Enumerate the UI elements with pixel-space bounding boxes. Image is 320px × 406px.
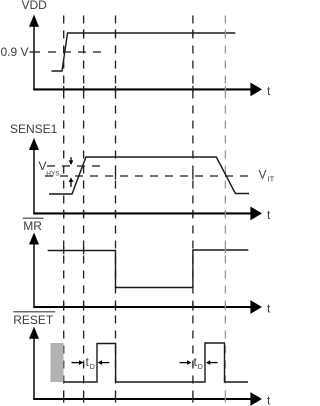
- tD delay annotation 2 arrow right: [180, 362, 188, 364]
- svg-text:t: t: [267, 394, 271, 406]
- 0.9 V dashed level line: [48, 51, 104, 53]
- VDD time axis: [33, 88, 251, 90]
- VIT dashed level line: [45, 175, 252, 177]
- VDD vertical axis: [33, 25, 35, 89]
- SENSE1 time axis arrowhead: [250, 207, 262, 221]
- VHYS upper arrow (down): [70, 157, 72, 161]
- RESET time axis arrowhead: [250, 392, 262, 406]
- RESET vertical axis arrowhead: [29, 327, 39, 339]
- label MR with overline: [23, 217, 44, 219]
- svg-text:0.9 V: 0.9 V: [1, 45, 29, 59]
- MR time axis arrowhead: [250, 300, 262, 314]
- label RESET with overline: [13, 311, 55, 313]
- MR vertical axis arrowhead: [29, 233, 39, 245]
- vertical dashed reference line 1 (VDD crosses 0.9 V): [63, 16, 65, 397]
- SENSE1 vertical axis arrowhead: [29, 138, 39, 150]
- svg-text:HYS: HYS: [46, 170, 60, 177]
- VDD waveform: [52, 33, 236, 71]
- vertical dashed reference line 3 (MR falling edge): [115, 16, 117, 397]
- RESET vertical axis: [33, 337, 35, 399]
- svg-text:t: t: [267, 301, 271, 315]
- svg-text:SENSE1: SENSE1: [10, 122, 58, 136]
- RESET time axis: [33, 398, 251, 400]
- tD delay annotation 1 arrow right: [72, 362, 80, 364]
- VDD time axis arrowhead: [250, 83, 262, 97]
- vertical dashed reference line 2 (SENSE1 rising threshold): [83, 16, 85, 397]
- svg-text:t: t: [267, 208, 271, 222]
- MR vertical axis: [33, 243, 35, 307]
- vertical dashed reference line 4 (MR rising edge): [192, 16, 194, 397]
- svg-text:VDD: VDD: [22, 0, 48, 12]
- svg-text:MR: MR: [23, 219, 42, 233]
- svg-text:RESET: RESET: [13, 313, 54, 327]
- SENSE1 waveform: [49, 157, 249, 194]
- svg-text:D: D: [198, 364, 203, 371]
- upper threshold dashed level (VIT+): [47, 165, 105, 167]
- RESET waveform: [64, 343, 249, 382]
- SENSE1 vertical axis: [33, 148, 35, 213]
- SENSE1 time axis: [33, 212, 251, 214]
- vertical dashed reference line 5 gray (SENSE1 falling through VIT): [224, 16, 226, 397]
- svg-text:V: V: [259, 167, 267, 181]
- svg-text:D: D: [90, 364, 95, 371]
- svg-text:t: t: [267, 84, 271, 98]
- tick crossings of dashed reference lines over axes and levels: [63, 86, 65, 93]
- VDD vertical axis arrowhead: [29, 15, 39, 27]
- MR waveform: [48, 250, 249, 288]
- VHYS lower arrow (up): [70, 182, 72, 187]
- RESET undefined gray region: [51, 343, 64, 382]
- MR time axis: [33, 306, 251, 308]
- 0.9 V tick on axis: [30, 51, 41, 53]
- tD delay annotation 1 arrow left: [98, 360, 102, 365]
- svg-text:IT: IT: [268, 174, 275, 183]
- tD delay annotation 2 arrow left: [206, 360, 210, 365]
